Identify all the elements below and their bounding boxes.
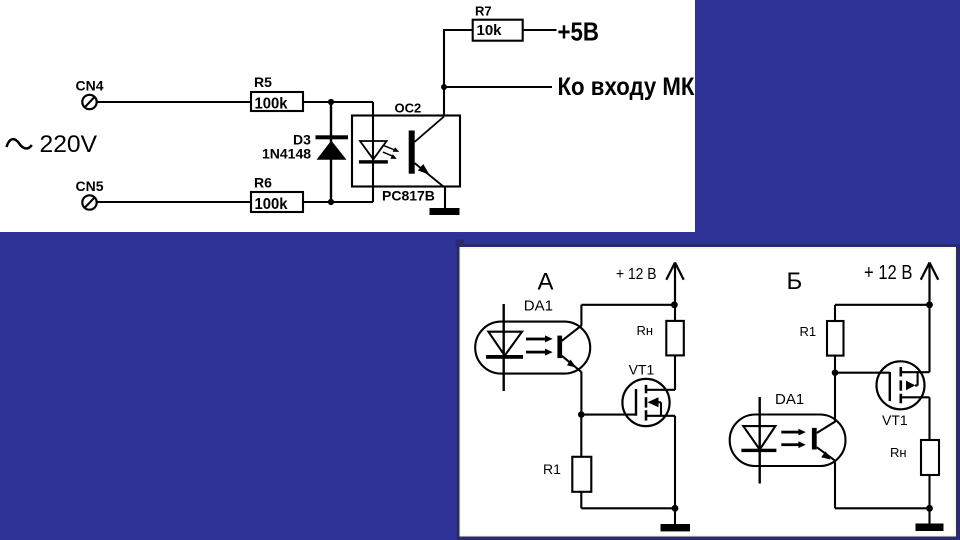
svg-text:R5: R5 xyxy=(254,74,272,90)
svg-text:100k: 100k xyxy=(255,196,288,213)
svg-text:PC817B: PC817B xyxy=(382,187,435,203)
svg-text:+ 12 В: + 12 В xyxy=(616,266,657,283)
svg-text:Б: Б xyxy=(787,268,803,295)
svg-text:DA1: DA1 xyxy=(775,391,804,408)
svg-text:220V: 220V xyxy=(40,131,98,158)
svg-text:R1: R1 xyxy=(800,324,817,339)
svg-text:CN5: CN5 xyxy=(76,178,104,194)
svg-text:DA1: DA1 xyxy=(524,298,553,315)
svg-text:+ 12 В: + 12 В xyxy=(864,262,913,284)
svg-text:Rн: Rн xyxy=(890,445,907,460)
svg-text:CN4: CN4 xyxy=(76,77,104,93)
svg-text:OC2: OC2 xyxy=(395,101,422,116)
svg-text:Rн: Rн xyxy=(637,323,654,338)
svg-text:10k: 10k xyxy=(477,22,503,39)
svg-text:VT1: VT1 xyxy=(882,412,908,428)
svg-text:+5В: +5В xyxy=(558,17,600,47)
svg-text:R6: R6 xyxy=(254,175,272,191)
svg-text:R7: R7 xyxy=(475,4,492,19)
svg-text:1N4148: 1N4148 xyxy=(262,146,311,162)
svg-text:A: A xyxy=(538,269,554,296)
svg-text:R1: R1 xyxy=(543,461,561,477)
svg-text:100k: 100k xyxy=(255,96,288,113)
svg-text:VT1: VT1 xyxy=(629,361,655,377)
svg-text:Ко входу МК: Ко входу МК xyxy=(558,73,696,101)
